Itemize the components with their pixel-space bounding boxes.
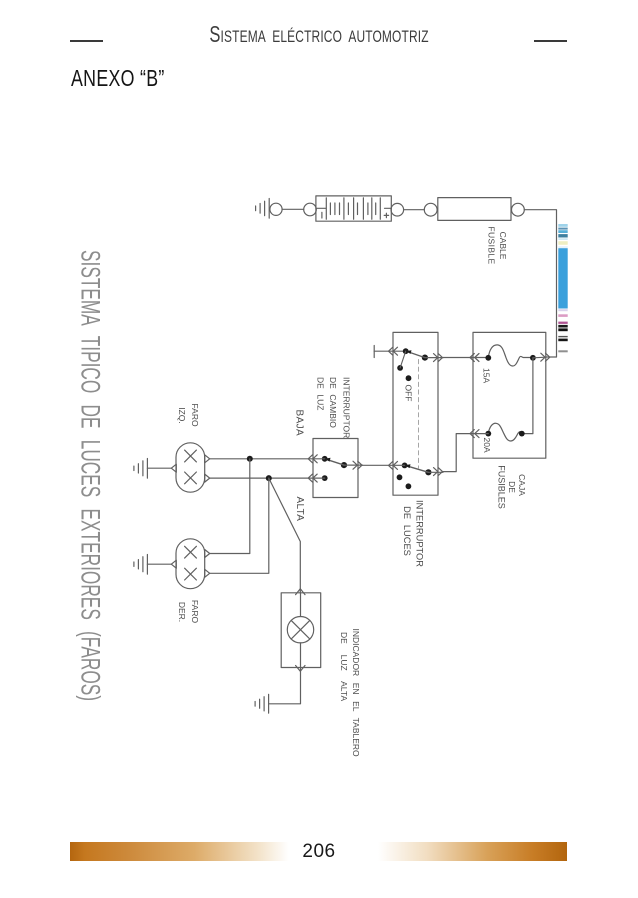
wire junction bottom down to FARO DER xyxy=(210,478,269,573)
input tick xyxy=(373,346,375,358)
color stripe artifact xyxy=(558,224,567,352)
wire switch top output xyxy=(425,357,443,359)
connector chevrons switch bottom input xyxy=(389,461,398,469)
dimmer switch box INTERRUPTOR DE CAMBIO DE LUZ xyxy=(313,439,358,498)
connector chevrons dimmer output xyxy=(353,461,362,469)
input wire top xyxy=(374,350,406,352)
connector ring C1 xyxy=(270,203,282,215)
junction dot top xyxy=(247,456,253,462)
wire ground to FARO DER xyxy=(147,563,171,565)
svg-text:INTERRUPTOR: INTERRUPTOR xyxy=(415,500,425,567)
connector chevrons fuse box 20A input xyxy=(470,430,479,438)
page number xyxy=(0,841,638,863)
connector chevrons dimmer ALTA input xyxy=(308,474,317,482)
svg-text:INDICADOR EN EL TABLERO: INDICADOR EN EL TABLERO xyxy=(351,629,361,758)
svg-text:CAJA: CAJA xyxy=(517,474,527,496)
connector chevrons switch bottom output xyxy=(434,468,443,476)
svg-text:IZQ.: IZQ. xyxy=(177,407,187,424)
wire feed (switch to fuse box) xyxy=(443,357,488,359)
connector chevrons dimmer BAJA input xyxy=(308,455,317,463)
fuse box CAJA DE FUSIBLES xyxy=(473,332,546,458)
wire ALTA (lamp to dimmer) xyxy=(210,477,325,479)
svg-text:DER.: DER. xyxy=(177,602,187,622)
svg-text:INTERRUPTOR: INTERRUPTOR xyxy=(342,377,352,438)
connector ring C5 xyxy=(512,203,525,216)
wire C3-C4 xyxy=(404,209,425,211)
svg-text:15A: 15A xyxy=(482,368,492,383)
header title xyxy=(94,25,543,46)
wire switch bottom output xyxy=(428,471,443,473)
dimmer contacts xyxy=(322,456,347,481)
svg-text:FARO: FARO xyxy=(190,403,200,427)
fuse 15A xyxy=(485,345,535,366)
connector chevrons fuse box 15A input xyxy=(470,354,479,362)
switch top contacts xyxy=(397,348,428,381)
wire C1-C2 xyxy=(282,208,304,210)
connector chevrons fuse box 15A output xyxy=(541,353,550,361)
wire BAJA (lamp to dimmer) xyxy=(210,458,325,460)
light switch box INTERRUPTOR DE LUCES xyxy=(393,332,438,495)
svg-text:OFF: OFF xyxy=(404,385,414,402)
wire 20A left to bend and down to switch xyxy=(443,434,488,472)
headlamp FARO DER xyxy=(171,539,209,589)
svg-text:FUSIBLES: FUSIBLES xyxy=(497,465,507,509)
fuse 20A xyxy=(485,423,524,441)
switch bottom contacts xyxy=(397,463,432,490)
svg-text:DE CAMBIO: DE CAMBIO xyxy=(328,377,338,428)
svg-text:FUSIBLE: FUSIBLE xyxy=(487,226,497,264)
fusible link box (CABLE FUSIBLE) xyxy=(438,198,511,221)
heading ANEXO B xyxy=(71,65,165,92)
svg-text:BAJA: BAJA xyxy=(294,410,305,437)
connector ring C3 xyxy=(391,203,404,216)
connector ring C4 xyxy=(424,203,437,216)
svg-text:DE LUCES: DE LUCES xyxy=(402,506,412,556)
svg-text:ALTA: ALTA xyxy=(294,497,305,522)
connector ring C2 xyxy=(304,203,317,216)
wire indicator to ground xyxy=(269,668,300,704)
ground G2 xyxy=(134,459,148,479)
svg-text:DE: DE xyxy=(507,481,517,493)
wire junction top down to FARO DER xyxy=(210,459,250,554)
battery BT1 xyxy=(316,196,391,221)
ground G1 (battery) xyxy=(256,199,270,219)
svg-text:FARO: FARO xyxy=(190,600,200,624)
header rule left xyxy=(70,40,103,42)
svg-text:CABLE: CABLE xyxy=(498,232,508,260)
wire dimmer output xyxy=(344,464,363,466)
junction dot bottom xyxy=(266,475,272,481)
svg-text:DE LUZ ALTA: DE LUZ ALTA xyxy=(339,632,349,701)
indicator lamp box INDICADOR EN EL TABLERO DE LUZ ALTA xyxy=(281,589,321,672)
connector chevrons switch top output xyxy=(434,354,443,362)
wire 15A right dot down to 20A right dot xyxy=(522,358,533,434)
footer bar xyxy=(70,842,567,861)
ground G4 xyxy=(255,694,269,713)
wire switch bottom input xyxy=(363,464,405,466)
dashed travel line xyxy=(418,360,420,469)
svg-text:SISTEMA TIPICO DE LUCES EXTERI: SISTEMA TIPICO DE LUCES EXTERIORES (FARO… xyxy=(76,250,107,701)
header rule right xyxy=(534,40,567,42)
headlamp FARO IZQ xyxy=(171,443,209,492)
connector chevrons switch top input xyxy=(389,347,398,355)
wire diagonal to indicator xyxy=(269,478,301,593)
ground G3 xyxy=(134,555,148,575)
wire ground to FARO IZQ xyxy=(147,467,171,469)
svg-text:DE LUZ: DE LUZ xyxy=(316,377,326,410)
wire 15A to right edge xyxy=(533,356,546,359)
svg-text:20A: 20A xyxy=(482,438,492,453)
wire C5 to right corner and down to fuse box xyxy=(524,210,556,357)
